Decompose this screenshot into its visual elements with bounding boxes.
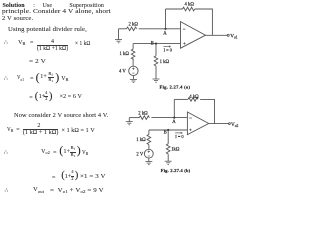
svg-text:Vo2: Vo2 (231, 122, 239, 128)
current arrow I=0 (circuit b) (175, 132, 182, 133)
wire: ground to resistor 2k (b) (129, 117, 139, 119)
wire: 1k to ground (b) (167, 154, 169, 161)
source 2V (circuit b) (144, 149, 153, 158)
wire: feedback right segment down to output (195, 9, 213, 35)
node A (circuit a) (164, 28, 166, 30)
wire: left branch down from B-wire (b) (148, 130, 150, 134)
svg-text:1 kΩ: 1 kΩ (160, 60, 170, 65)
wire: node A up to feedback (165, 9, 167, 29)
wire: node B down to 1k (155, 44, 157, 56)
ground (left of 2k, circuit b) (126, 118, 133, 125)
svg-text:4 kΩ: 4 kΩ (185, 3, 195, 8)
svg-text:2 V: 2 V (136, 153, 143, 158)
svg-text:Fig. 2.27.4 (b): Fig. 2.27.4 (b) (161, 168, 191, 173)
label minus input (a) (183, 28, 186, 30)
op-amp U2 (circuit b) (187, 112, 208, 135)
svg-text:1kΩ: 1kΩ (171, 147, 180, 152)
label plus input (a) (183, 42, 185, 44)
wire: 2k to op-amp inverting input (b) (151, 117, 187, 119)
op-amp U1 (circuit a) (181, 22, 206, 49)
svg-text:4 V: 4 V (119, 70, 126, 75)
wire: node B line to non-inverting input (b) (149, 129, 188, 131)
svg-text:Fig. 2.27.4 (a): Fig. 2.27.4 (a) (160, 85, 191, 90)
wire: source to ground (132, 76, 134, 80)
current arrow I=0 (circuit a) (163, 46, 170, 47)
resistor 1k ohm (left branch, circuit b) (147, 134, 151, 144)
ground (2V source, circuit b) (145, 162, 152, 165)
wire: 1k to ground (155, 66, 157, 79)
resistor 4k ohm feedback (circuit b) (188, 98, 198, 102)
wire: 2k to op-amp inverting input (139, 28, 181, 30)
svg-text:1 kΩ: 1 kΩ (136, 138, 146, 143)
source 4V (circuit a) (129, 66, 138, 75)
svg-text:A: A (172, 120, 176, 125)
ground (B branch, circuit a) (153, 79, 160, 82)
svg-text:B: B (164, 131, 167, 136)
svg-text:A: A (163, 32, 167, 37)
resistor 4k ohm feedback (circuit a) (183, 7, 195, 11)
label + of source (b) (148, 151, 150, 153)
ground (B branch, circuit b) (165, 161, 172, 164)
svg-text:4 kΩ: 4 kΩ (189, 95, 199, 100)
wire: source to ground (b) (148, 158, 150, 161)
wire: resistor to source 2V (148, 145, 150, 150)
node A (circuit b) (173, 117, 175, 119)
label - of source (b) (148, 155, 150, 157)
wire: op-amp output to terminal (206, 34, 228, 36)
resistor 2k ohm (circuit a) (127, 27, 137, 31)
wire: op-amp output to terminal (b) (209, 123, 229, 125)
label minus input (b) (189, 117, 192, 119)
resistor 1k ohm (left branch, circuit a) (131, 49, 135, 59)
wire: resistor to source 4V (132, 58, 134, 66)
node B (circuit a) (155, 43, 157, 45)
resistor 1k ohm (B branch, circuit a) (154, 56, 158, 66)
label + of source (a) (132, 68, 134, 70)
output terminal Vo2 (229, 123, 231, 125)
svg-text:2 kΩ: 2 kΩ (129, 23, 139, 28)
svg-text:I = 0: I = 0 (175, 134, 184, 139)
resistor 1k ohm (B branch, circuit b) (166, 144, 170, 154)
wire: node B line to op-amp non-inverting input (133, 43, 180, 45)
wire: left branch down from B-wire (132, 44, 134, 49)
wire: feedback top left segment (166, 8, 183, 10)
node B (circuit b) (167, 129, 169, 131)
left column text (3, 3, 25, 9)
wire: feedback top left segment (b) (174, 98, 188, 100)
svg-text:B: B (151, 41, 154, 46)
circuits (0, 0, 243, 208)
svg-text:I = 0: I = 0 (164, 47, 173, 52)
wire: ground to resistor 2k (119, 28, 127, 30)
svg-text:2 kΩ: 2 kΩ (138, 112, 148, 117)
ground (4V source, circuit a) (130, 79, 137, 82)
svg-text:1 kΩ: 1 kΩ (120, 52, 130, 57)
resistor 2k ohm (circuit b) (139, 116, 149, 120)
wire: feedback right segment down to output (b) (200, 99, 214, 123)
label - of source (a) (132, 72, 134, 74)
ground (left of 2k, circuit a) (115, 29, 122, 43)
output terminal Vo1 (227, 34, 229, 36)
wire: node A up to feedback (b) (173, 99, 175, 117)
label plus input (b) (189, 129, 191, 131)
svg-text:Vo1: Vo1 (230, 34, 238, 40)
wire: node B down to 1k (b) (167, 130, 169, 144)
